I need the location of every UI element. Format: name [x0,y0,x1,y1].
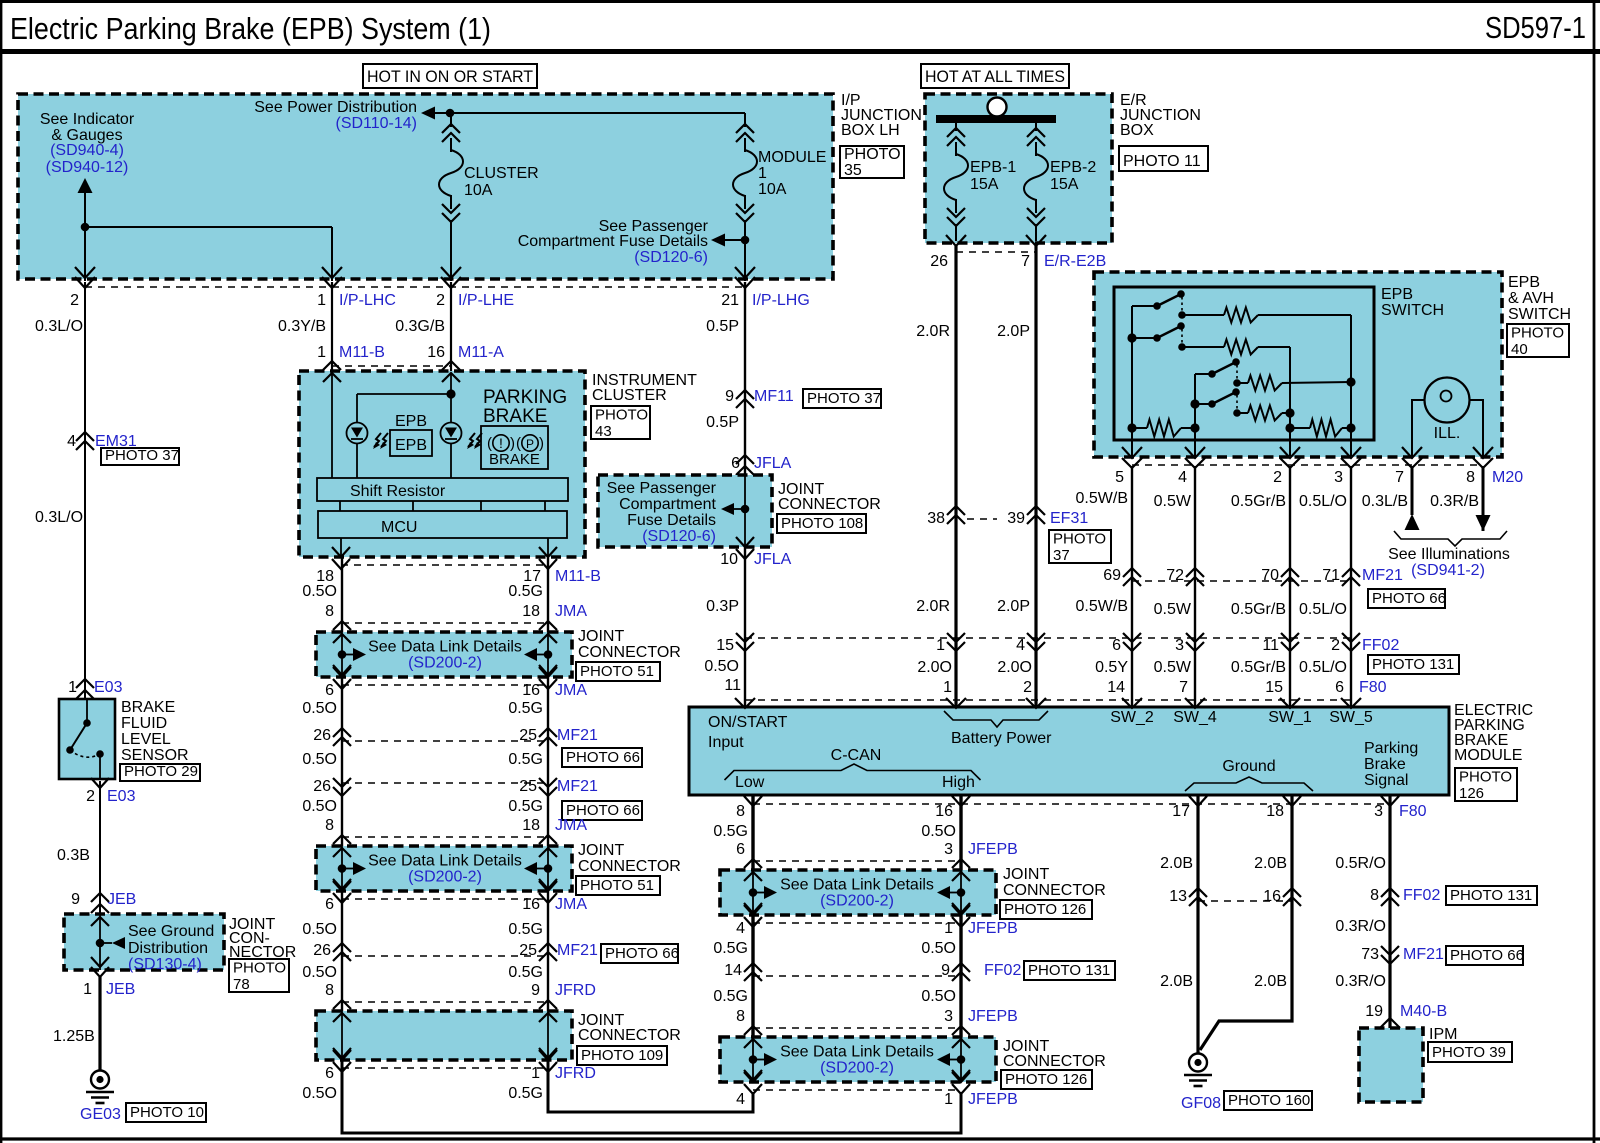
brake fluid level sensor box [59,699,115,779]
svg-text:MF21: MF21 [1403,946,1444,963]
wire 0.5O to C-CAN low [342,1060,961,1133]
svg-text:26: 26 [313,727,331,744]
svg-text:1: 1 [758,165,767,182]
svg-text:0.5G: 0.5G [508,700,543,717]
svg-text:PHOTO 66: PHOTO 66 [605,945,679,962]
connector JMA pins 8/18 entry no.2 [333,835,351,844]
svg-text:0.5W: 0.5W [1154,601,1192,618]
photo ref PHOTO 131 (FF02 center) [1024,961,1115,980]
wire 0.3L/O down left column [84,282,86,699]
EPB indicator LED [347,423,368,444]
wire 0.3L/B illumination [1411,466,1414,515]
joint connector box (data link, PHOTO 126) no.1 [720,870,996,915]
svg-text:See Data Link Details: See Data Link Details [368,639,522,656]
svg-text:(SD940-4): (SD940-4) [50,142,124,159]
svg-text:0.5W/B: 0.5W/B [1076,490,1128,507]
svg-text:0.5L/O: 0.5L/O [1299,601,1347,618]
svg-text:M11-B: M11-B [555,568,601,585]
svg-text:0.5P: 0.5P [706,414,739,431]
svg-text:CONNECTOR: CONNECTOR [1003,882,1106,899]
svg-text:I/P-LHC: I/P-LHC [339,292,396,309]
svg-text:1: 1 [317,292,326,309]
MCU box [318,511,567,538]
svg-text:25: 25 [519,942,537,959]
resistor (switch 2) [1224,340,1258,355]
svg-text:9: 9 [725,388,734,405]
svg-text:JFEPB: JFEPB [968,841,1018,858]
connector JFEPB pins 8/3 entry no.2 [744,1026,762,1035]
svg-text:Battery Power: Battery Power [951,730,1052,747]
svg-text:Distribution: Distribution [128,940,208,957]
photo ref PHOTO 66 no.1 [562,748,642,767]
wire 2.0P vertical [1034,246,1037,707]
svg-text:40: 40 [1511,341,1528,358]
switch 2 resistor wire [1182,346,1224,348]
connector FF02 row [947,633,965,642]
svg-text:): ) [539,435,544,452]
svg-text:6: 6 [325,1065,334,1082]
svg-text:15A: 15A [970,176,999,193]
EPB switch inner box [1114,287,1374,440]
fuse EPB-1 15A [955,123,957,131]
svg-text:SW_1: SW_1 [1268,709,1312,726]
svg-text:11: 11 [1262,637,1279,654]
resistor (switch 4) [1248,406,1282,421]
photo ref PHOTO 66 (MF21 right) [1446,946,1523,965]
ground brace [1185,777,1313,791]
page border frame [0,0,1600,3]
svg-text:1: 1 [944,1091,953,1108]
svg-text:0.5O: 0.5O [921,940,956,957]
svg-text:SENSOR: SENSOR [121,747,189,764]
svg-text:2.0O: 2.0O [917,659,952,676]
svg-text:0.5G: 0.5G [713,988,748,1005]
svg-text:See Ground: See Ground [128,923,214,940]
svg-text:0.5Y: 0.5Y [1095,659,1128,676]
ILL lamp [1425,378,1470,423]
svg-text:EPB: EPB [1508,274,1540,291]
svg-text:15: 15 [1265,679,1283,696]
svg-text:2: 2 [436,292,445,309]
svg-text:13: 13 [1169,888,1187,905]
svg-text:(SD200-2): (SD200-2) [408,655,482,672]
svg-text:High: High [942,774,975,791]
svg-text:39: 39 [1007,510,1025,527]
wire 0.5G segment 3 [547,891,549,1011]
svg-text:FF02: FF02 [1403,887,1440,904]
svg-text:JOINT: JOINT [578,842,624,859]
svg-text:!: ! [499,435,503,451]
svg-text:GE03: GE03 [80,1106,121,1123]
svg-text:(SD120-6): (SD120-6) [642,528,716,545]
svg-text:78: 78 [233,976,250,993]
svg-text:(SD110-14): (SD110-14) [335,115,417,132]
svg-text:19: 19 [1365,1003,1383,1020]
connector JFEPB pins 4/1 exit no.2 [744,1072,762,1082]
svg-text:1: 1 [944,920,953,937]
svg-text:4: 4 [1016,637,1025,654]
svg-text:6: 6 [736,841,745,858]
svg-text:PHOTO: PHOTO [595,407,648,424]
svg-text:JOINT: JOINT [578,628,624,645]
EPB switch left bus [1131,306,1133,428]
connector JFEPB pins 4/1 exit [744,905,762,915]
wire fuse feed horizontal [450,112,745,114]
JFLA branch arrow [741,505,750,514]
svg-text:0.5O: 0.5O [302,964,337,981]
photo ref PHOTO 126 (module) [1455,768,1517,801]
svg-text:JEB: JEB [107,891,136,908]
svg-text:MF11: MF11 [754,388,794,405]
svg-text:0.3R/B: 0.3R/B [1430,493,1479,510]
svg-text:JMA: JMA [555,896,587,913]
svg-text:M40-B: M40-B [1400,1003,1447,1020]
photo ref PHOTO 10 [126,1103,206,1122]
svg-text:0.5L/O: 0.5L/O [1299,659,1347,676]
switch 1 resistor wire [1182,314,1224,316]
svg-text:BRAKE: BRAKE [489,451,540,468]
connector pins E/R box bottom [946,235,966,246]
svg-text:PHOTO: PHOTO [233,960,286,977]
svg-text:(SD940-12): (SD940-12) [46,159,129,176]
svg-text:BRAKE: BRAKE [121,699,175,716]
svg-text:MODULE: MODULE [758,149,826,166]
svg-text:2.0R: 2.0R [916,323,950,340]
EPB middle bus [1194,374,1196,428]
wire 0.3B [99,781,101,914]
svg-text:0.5O: 0.5O [704,658,739,675]
wire I/P-LHE to cluster [450,282,452,371]
shift resistor to MCU stubs [339,501,341,511]
arrow to passenger fuse details [711,234,725,247]
connector FF02 pin 8 [1381,888,1399,897]
node cluster lamp junction [446,389,455,398]
switch 3 resistor wire [1237,382,1248,384]
svg-text:BOX LH: BOX LH [841,122,900,139]
wire indicator branch vertical [84,191,86,281]
wire 0.5O segment 2 [341,677,343,846]
EPB & AVH switch box (dashed) [1094,272,1502,457]
svg-text:10A: 10A [464,182,493,199]
svg-text:0.5G: 0.5G [508,751,543,768]
svg-text:EPB-2: EPB-2 [1050,159,1096,176]
svg-text:HOT AT ALL TIMES: HOT AT ALL TIMES [925,67,1065,86]
connector MF21 pins 26/25 (upper) [333,728,351,737]
wire 0.5G to C-CAN high [548,1060,753,1112]
svg-text:3: 3 [1175,637,1184,654]
svg-text:EPB-1: EPB-1 [970,159,1016,176]
svg-text:PHOTO: PHOTO [1511,325,1564,342]
svg-text:PHOTO 126: PHOTO 126 [1004,901,1086,918]
svg-text:M11-B: M11-B [339,344,385,361]
svg-text:2.0B: 2.0B [1160,855,1193,872]
svg-text:14: 14 [724,962,742,979]
svg-text:PHOTO 131: PHOTO 131 [1450,887,1532,904]
title separator line [0,49,1600,54]
svg-text:0.5G: 0.5G [508,798,543,815]
svg-text:PHOTO: PHOTO [1053,531,1106,548]
ILL lamp wires [1412,400,1425,456]
svg-text:0.5Gr/B: 0.5Gr/B [1231,601,1286,618]
svg-text:Fuse Details: Fuse Details [627,512,716,529]
svg-text:1: 1 [83,981,92,998]
svg-text:71: 71 [1322,567,1340,584]
svg-text:See Data Link Details: See Data Link Details [780,1044,934,1061]
svg-text:CONNECTOR: CONNECTOR [578,644,681,661]
battery power brace [944,711,1048,727]
fuse EPB-2 15A [1035,123,1037,131]
svg-text:Electric Parking Brake (EPB) S: Electric Parking Brake (EPB) System (1) [10,11,491,46]
svg-text:EPB: EPB [1381,286,1413,303]
photo ref PHOTO 131 (FF02 right) [1446,886,1537,905]
wire 1.25B [98,977,101,1071]
EPB flash arrows [374,433,381,447]
svg-text:0.5Gr/B: 0.5Gr/B [1231,659,1286,676]
connector MF21 pins 26/25 (lower) [333,778,351,787]
connector E03 pin 2 exit [91,778,109,788]
svg-text:PHOTO 126: PHOTO 126 [1005,1071,1087,1088]
svg-text:2.0B: 2.0B [1254,855,1287,872]
node module fuse junction [741,236,750,245]
wire 0.5G segment 2 [547,677,549,846]
connector FF02 pins 14/9 [744,963,762,972]
connector pins 13/16 [1189,888,1207,897]
svg-text:Compartment Fuse Details: Compartment Fuse Details [518,233,708,250]
svg-text:18: 18 [522,817,540,834]
svg-text:CONNECTOR: CONNECTOR [1003,1053,1106,1070]
svg-text:See Indicator: See Indicator [40,111,135,128]
svg-text:JMA: JMA [555,682,587,699]
svg-text:PHOTO 11: PHOTO 11 [1123,153,1201,170]
instrument cluster box (dashed) [299,371,585,557]
svg-text:0.5O: 0.5O [302,583,337,600]
svg-text:SW_2: SW_2 [1110,709,1154,726]
wire 0.5R/O [1388,795,1391,1028]
connector JEB pin 1 exit [91,967,109,977]
resistor (bottom left) [1132,427,1147,429]
wire 0.5O JFEPB seg1 [959,795,962,870]
svg-text:18: 18 [1266,803,1284,820]
svg-text:8: 8 [736,1008,745,1025]
svg-text:See Power Distribution: See Power Distribution [254,99,417,116]
ground distribution branch arrow [96,939,105,948]
photo ref PHOTO 35 [840,146,904,178]
module exit pins bottom [744,796,762,806]
C-CAN brace [725,764,981,780]
connector F80 dashed line [745,699,1351,701]
svg-text:JFEPB: JFEPB [968,920,1018,937]
svg-text:C-CAN: C-CAN [831,747,882,764]
svg-text:SWITCH: SWITCH [1381,302,1444,319]
svg-text:0.3L/O: 0.3L/O [35,509,83,526]
svg-text:SWITCH: SWITCH [1508,306,1571,323]
svg-text:0.5G: 0.5G [508,964,543,981]
svg-text:6: 6 [1335,679,1344,696]
svg-text:7: 7 [1179,679,1188,696]
svg-text:0.3B: 0.3B [57,847,90,864]
connector JFEPB pins 6/3 entry [744,859,762,868]
svg-text:8: 8 [325,817,334,834]
photo ref PHOTO 131 (FF02) [1368,655,1459,674]
svg-text:(SD941-2): (SD941-2) [1411,562,1485,579]
EPB indicator rect [390,430,432,456]
electric parking brake module box [689,707,1449,795]
ground GF08 [1189,1054,1207,1072]
connector dashed line module bottom [753,803,1390,805]
svg-text:16: 16 [935,803,953,820]
svg-text:PHOTO 109: PHOTO 109 [581,1047,663,1064]
svg-text:Shift Resistor: Shift Resistor [350,483,446,500]
svg-text:2: 2 [1023,679,1032,696]
connector JMA pins 6/16 exit no.2 [333,881,351,891]
svg-text:1.25B: 1.25B [53,1028,95,1045]
svg-text:MF21: MF21 [1362,567,1403,584]
svg-text:FF02: FF02 [1362,637,1399,654]
svg-text:PHOTO 160: PHOTO 160 [1228,1092,1310,1109]
svg-text:PHOTO 131: PHOTO 131 [1372,656,1454,673]
svg-text:6: 6 [325,896,334,913]
fuse CLUSTER 10A [442,124,460,133]
svg-text:25: 25 [519,778,537,795]
svg-text:0.5O: 0.5O [302,921,337,938]
svg-text:Compartment: Compartment [619,496,716,513]
svg-text:16: 16 [1263,888,1281,905]
connector dashed line I/P box [85,286,745,288]
connector JMA pins 6/16 exit [333,667,351,677]
svg-text:0.5O: 0.5O [921,988,956,1005]
svg-text:18: 18 [522,603,540,620]
connector dashed line E/R-E2B [956,251,1036,253]
svg-text:69: 69 [1103,567,1121,584]
svg-text:E03: E03 [107,788,136,805]
illumination arrow down [1476,515,1491,531]
svg-text:ON/START: ON/START [708,714,788,731]
arrow to indicator & gauges [78,178,93,193]
wire 0.5O segment 3 [341,891,343,1011]
svg-text:Brake: Brake [1364,756,1406,773]
svg-text:9: 9 [531,982,540,999]
connector JFRD pins 8/9 entry [333,1000,351,1009]
connector MF21 pins 69 72 70 71 [1123,568,1141,577]
svg-text:2: 2 [1331,637,1340,654]
svg-text:73: 73 [1361,946,1379,963]
brake indicator LED [441,423,462,444]
svg-text:26: 26 [930,253,948,270]
svg-text:38: 38 [927,510,945,527]
svg-text:JFLA: JFLA [754,455,792,472]
svg-text:37: 37 [1053,547,1070,564]
svg-text:8: 8 [1370,887,1379,904]
photo ref PHOTO 29 [120,764,200,781]
svg-text:7: 7 [1395,469,1404,486]
svg-text:4: 4 [1178,469,1187,486]
svg-text:PHOTO 37: PHOTO 37 [807,390,881,407]
photo ref PHOTO 39 [1428,1042,1512,1062]
arrow to power distribution [421,107,435,120]
svg-text:2.0B: 2.0B [1254,973,1287,990]
svg-text:JMA: JMA [555,817,587,834]
svg-text:PHOTO 10: PHOTO 10 [130,1104,204,1121]
svg-text:0.3G/B: 0.3G/B [395,318,445,335]
svg-text:0.5W/B: 0.5W/B [1076,598,1128,615]
cluster entry chevrons [323,373,341,382]
photo ref PHOTO 160 [1224,1091,1312,1110]
wire I/P-LHC to cluster [331,282,333,371]
svg-text:JFEPB: JFEPB [968,1091,1018,1108]
cluster lamp branch wire [357,393,451,395]
svg-text:72: 72 [1166,567,1184,584]
svg-text:BRAKE: BRAKE [483,406,547,427]
svg-text:Low: Low [735,774,765,791]
photo ref PHOTO 11 [1119,146,1208,171]
connector MF11 pin 9 [736,390,754,399]
svg-text:15A: 15A [1050,176,1079,193]
svg-text:21: 21 [721,292,739,309]
battery terminal circle [988,98,1007,117]
svg-text:0.5O: 0.5O [302,700,337,717]
wire 0.3R/B illumination [1482,466,1485,531]
photo ref PHOTO 40 [1507,324,1569,357]
svg-text:I/P-LHE: I/P-LHE [458,292,514,309]
svg-text:(SD120-6): (SD120-6) [634,249,708,266]
resistor (bottom right) [1290,427,1310,429]
resistor (switch 1) [1224,308,1258,323]
svg-text:F80: F80 [1359,679,1387,696]
svg-text:11: 11 [724,677,741,694]
svg-text:EPB: EPB [395,437,427,454]
svg-text:8: 8 [1466,469,1475,486]
svg-text:2.0R: 2.0R [916,598,950,615]
svg-text:0.3R/O: 0.3R/O [1335,918,1386,935]
svg-text:3: 3 [944,1008,953,1025]
joint connector box (data link, PHOTO 51) no.2 [316,846,572,891]
svg-text:JFRD: JFRD [555,982,596,999]
module entry pin chevrons [735,698,755,708]
EPB right branch wire [1350,315,1352,428]
svg-text:See Passenger: See Passenger [607,480,717,497]
switch 1 (EPB apply) [1132,305,1157,307]
svg-text:0.5R/O: 0.5R/O [1335,855,1386,872]
svg-text:0.3L/B: 0.3L/B [1362,493,1408,510]
svg-text:0.5Gr/B: 0.5Gr/B [1231,493,1286,510]
wire 0.5G JFEPB seg1 [751,795,754,870]
svg-text:I/P-LHG: I/P-LHG [752,292,810,309]
connector M20 dashed line [1132,464,1483,466]
wire I/P-LHG down [744,282,746,707]
fluid level switch [86,699,88,723]
svg-text:6: 6 [1112,637,1121,654]
svg-text:0.3L/O: 0.3L/O [35,318,83,335]
svg-text:JFLA: JFLA [754,551,792,568]
svg-text:7: 7 [1021,253,1030,270]
svg-text:3: 3 [1334,469,1343,486]
fuse MODULE 1 10A [736,124,754,133]
connector FF02 pin 15 [736,633,754,642]
ground GE03 [91,1071,109,1089]
connector JMA pins 8/18 entry [333,621,351,630]
node junction indicator branch [81,223,90,232]
svg-text:2: 2 [1273,469,1282,486]
svg-text:CONNECTOR: CONNECTOR [778,496,881,513]
photo ref PHOTO 78 [229,959,289,992]
svg-text:4: 4 [67,433,76,450]
svg-text:2.0O: 2.0O [997,659,1032,676]
svg-text:10: 10 [720,551,738,568]
svg-text:BOX: BOX [1120,122,1154,139]
photo ref PHOTO 37 (MF11) [803,389,881,408]
svg-text:MF21: MF21 [557,942,598,959]
ground distribution joint connector box [64,914,224,970]
